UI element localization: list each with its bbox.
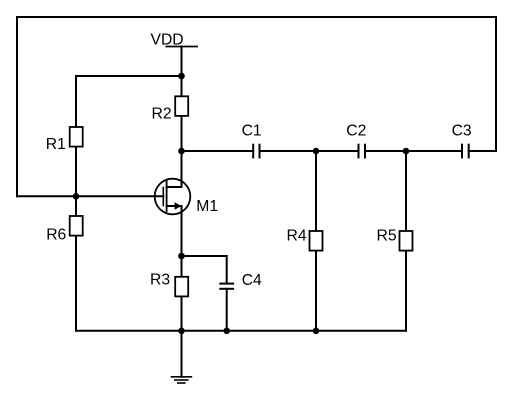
svg-text:C2: C2: [346, 122, 366, 139]
wire R4 branch: [315, 151, 317, 331]
resistor R3: [150, 272, 188, 297]
wire C1 to C2 (node A): [260, 150, 359, 152]
wire gate (node G): [17, 195, 163, 197]
wire C3 to right edge: [469, 150, 496, 152]
node drain-R2 junction: [178, 73, 185, 80]
svg-text:C3: C3: [452, 123, 472, 140]
capacitor C3: [452, 123, 472, 158]
wire C4 lower lead: [226, 289, 228, 331]
wire feedback top: [17, 16, 496, 18]
svg-text:R3: R3: [150, 272, 170, 289]
svg-text:C1: C1: [242, 123, 262, 140]
node R4-rail junction: [313, 328, 320, 335]
svg-text:M1: M1: [196, 198, 218, 215]
node C2-C3-R5 junction: [403, 148, 410, 155]
wire bottom rail: [76, 330, 406, 332]
svg-text:R6: R6: [46, 227, 66, 244]
transistor M1: [155, 179, 218, 215]
resistor R1: [46, 127, 83, 153]
node source-R3-C4 junction: [178, 253, 185, 260]
wire feedback left vertical: [16, 17, 18, 196]
power symbol VDD: [166, 46, 197, 48]
svg-text:VDD: VDD: [151, 32, 184, 49]
node output junction: [178, 148, 185, 155]
capacitor C2: [346, 122, 366, 157]
resistor R6: [46, 216, 82, 244]
wire drain chain R2: [181, 76, 183, 187]
wire VDD stem: [181, 47, 183, 77]
resistor R4: [287, 227, 323, 250]
label VDD: [151, 32, 184, 49]
svg-text:R1: R1: [46, 136, 66, 153]
svg-text:R4: R4: [287, 227, 307, 244]
node C1-C2-R4 junction: [313, 148, 320, 155]
capacitor C1: [242, 123, 262, 158]
wire feedback right vertical: [495, 17, 497, 151]
svg-text:C4: C4: [242, 272, 262, 289]
wire source branch to R3: [181, 206, 183, 331]
wire VDD rail to R1: [76, 75, 182, 77]
node gate junction: [73, 193, 80, 200]
resistor R2: [152, 96, 189, 122]
ground: [172, 377, 192, 383]
wire C4 upper lead: [226, 256, 228, 284]
wire R1/R6 branch vertical: [75, 76, 77, 331]
resistor R5: [377, 227, 413, 250]
wire source node to C4: [182, 255, 227, 257]
node ground junction: [178, 328, 185, 335]
wire output node to C1: [182, 150, 254, 152]
wire R5 branch: [405, 151, 407, 331]
svg-text:R2: R2: [152, 106, 172, 123]
svg-text:R5: R5: [377, 227, 397, 244]
node C4-rail junction: [223, 328, 230, 335]
wire C2 to C3 (node B): [365, 150, 462, 152]
wire ground stem: [181, 331, 183, 377]
capacitor C4: [220, 272, 262, 289]
